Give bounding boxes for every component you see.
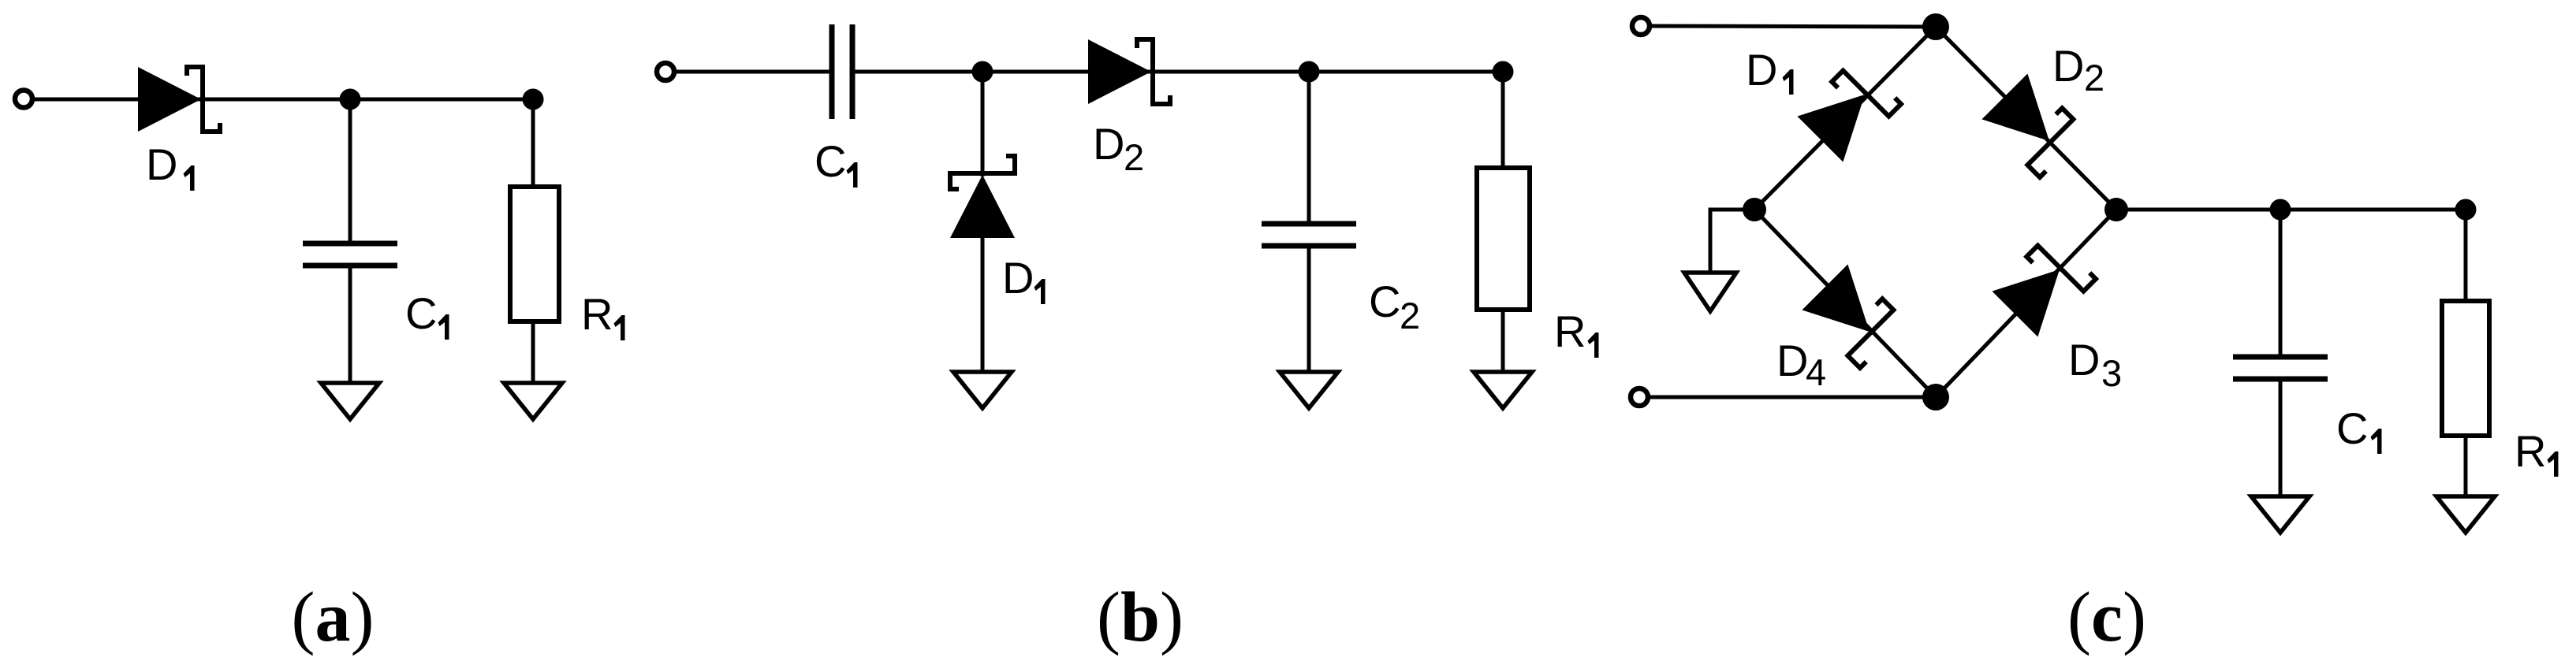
node R1 junction dot (c) (2455, 199, 2477, 221)
wire node A1 to capacitor C1 (a) (349, 99, 352, 241)
bridge arm left-bottom wire (1754, 210, 1936, 397)
label D4 (c) (1776, 336, 1826, 393)
svg-text:(a): (a) (292, 578, 375, 656)
wire bridge left node to ground elbow (c) (1710, 210, 1754, 273)
svg-text:C: C (815, 136, 846, 186)
resistor R1 (a) (510, 187, 559, 321)
label R1 (a) (581, 289, 625, 340)
bridge top node dot (1922, 13, 1949, 40)
wire capacitor C1 to resistor node (b) (855, 70, 1503, 74)
label C1 (b) (815, 136, 858, 188)
bridge arm bottom-right wire (1936, 210, 2116, 397)
node A1 junction dot (340, 89, 361, 110)
wire node B1 to diode D1 (b) (981, 72, 985, 176)
ground below R1 (a) (504, 383, 562, 419)
wire node B3 to resistor R1 (b) (1501, 72, 1505, 170)
wire node A2 to resistor R1 (a) (531, 99, 535, 189)
ground at bridge left (c) (1684, 273, 1736, 311)
node C1 junction dot (c) (2270, 199, 2291, 221)
wire capacitor C2 to ground (b) (1307, 248, 1311, 373)
node B1 junction dot (972, 61, 993, 83)
wire input to node (a) (32, 98, 533, 102)
capacitor C1 series (b) (832, 24, 852, 119)
label D1 (a) (146, 139, 195, 191)
label D3 (c) (2068, 335, 2122, 394)
wire bottom input to bridge bottom node (c) (1649, 396, 1936, 399)
wire resistor R1 to ground (b) (1501, 310, 1505, 373)
svg-text:(c): (c) (2067, 578, 2146, 656)
svg-text:(b): (b) (1097, 578, 1184, 656)
input terminal (a) (15, 91, 32, 108)
output wire right node to R1 (c) (2116, 208, 2466, 212)
resistor R1 (c) (2442, 301, 2489, 436)
bridge arm top-right wire (1936, 27, 2116, 210)
svg-text:R: R (1554, 306, 1586, 356)
diode D2 (b) (1088, 39, 1170, 104)
svg-text:D: D (1002, 253, 1034, 303)
svg-text:D: D (1776, 336, 1808, 385)
capacitor C1 (a) (303, 243, 397, 266)
svg-text:R: R (581, 289, 613, 339)
ground below C1 (c) (2251, 496, 2309, 533)
wire capacitor C1 to ground (a) (349, 268, 352, 384)
svg-text:2: 2 (1400, 295, 1420, 336)
node B3 junction dot (1493, 61, 1514, 83)
label D1 (b) (1002, 253, 1046, 304)
resistor R1 (b) (1477, 168, 1530, 310)
input terminal top (c) (1632, 17, 1650, 35)
svg-text:C: C (2336, 403, 2368, 453)
capacitor C2 (b) (1262, 224, 1356, 246)
svg-text:C: C (405, 288, 437, 338)
label C1 (c) (2336, 403, 2382, 454)
diode D4 (c) (1802, 264, 1906, 368)
bridge arm left-top wire (1754, 27, 1936, 210)
ground below D1 (b) (953, 372, 1012, 408)
node B2 junction dot (1299, 61, 1320, 83)
ground below R1 (c) (2436, 496, 2495, 533)
label R1 (b) (1554, 306, 1599, 358)
wire node B2 to capacitor C2 (b) (1307, 72, 1311, 221)
label C2 (b) (1369, 277, 1420, 336)
svg-text:4: 4 (1806, 351, 1826, 393)
svg-text:D: D (1093, 119, 1124, 169)
diode D1 (b) pointing up (950, 156, 1015, 238)
svg-text:D: D (2068, 335, 2100, 385)
svg-text:D: D (1746, 45, 1777, 95)
diode D1 (a) (138, 67, 220, 132)
svg-text:C: C (1369, 277, 1400, 326)
input terminal bottom (c) (1631, 388, 1648, 406)
bridge bottom node dot (1922, 384, 1949, 411)
wire input to capacitor C1 (b) (675, 70, 829, 74)
svg-text:R: R (2514, 426, 2546, 476)
input terminal (b) (657, 63, 674, 80)
capacitor C1 (c) (2233, 357, 2328, 379)
node A2 junction dot (523, 89, 544, 110)
wire resistor R1 to ground (c) (2464, 436, 2468, 497)
label D2 (b) (1093, 119, 1144, 178)
ground below C1 (a) (321, 383, 379, 419)
wire top input to bridge top node (c) (1650, 26, 1936, 27)
svg-text:D: D (146, 139, 177, 189)
svg-text:3: 3 (2101, 352, 2122, 394)
wire resistor R1 to ground (a) (531, 321, 535, 384)
wire node to resistor R1 (c) (2464, 210, 2468, 303)
label D1 (c) (1746, 45, 1794, 95)
label C1 (a) (405, 288, 449, 340)
wire diode D1 to ground (b) (981, 236, 985, 373)
diode D3 (c) (1992, 233, 2096, 337)
bridge right node dot (2104, 198, 2128, 221)
label R1 (c) (2514, 426, 2559, 477)
ground below R1 (b) (1474, 372, 1532, 408)
bridge left node dot (1743, 198, 1766, 221)
label D2 (c) (2052, 41, 2104, 98)
wire capacitor C1 to ground (c) (2279, 381, 2283, 497)
wire node to capacitor C1 (c) (2279, 210, 2283, 355)
diode D2 (c) (1981, 73, 2086, 177)
svg-text:2: 2 (1124, 136, 1144, 178)
svg-text:D: D (2052, 41, 2084, 91)
diode D1 (c) (1797, 58, 1901, 162)
ground below C2 (b) (1280, 372, 1338, 408)
svg-text:2: 2 (2084, 57, 2104, 98)
